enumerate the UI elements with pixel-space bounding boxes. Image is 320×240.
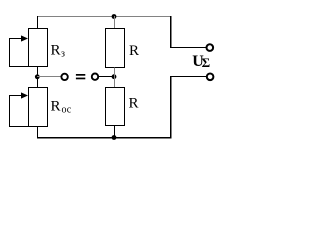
wiper arrow of Rос bbox=[10, 92, 28, 98]
junction node A (Rз / Rос / left supply terminal) bbox=[35, 74, 40, 79]
junction node: bottom bus at R bottom lead bbox=[112, 135, 117, 140]
wire: Rз wiper return (bottom horizontal to Rз bottom) bbox=[9, 66, 29, 68]
wire: node A to left supply terminal (gray) bbox=[37, 76, 62, 78]
terminal circle: output U+ bbox=[207, 44, 214, 51]
wire: right vertical from top bus down to U+ terminal bbox=[170, 16, 172, 48]
terminal circle: output U- bbox=[207, 74, 214, 81]
resistor Rз (adjustable, rectangle body) bbox=[29, 29, 48, 67]
svg-text:R: R bbox=[129, 43, 139, 59]
wire: Rз bottom lead down to node A bbox=[37, 67, 39, 88]
junction node: top bus at R top lead bbox=[112, 14, 117, 19]
wire: Rз top lead bbox=[37, 16, 39, 29]
wire: Rз wiper return (left bracket vertical) bbox=[9, 38, 11, 67]
label R (bottom) bbox=[129, 96, 139, 112]
supply symbol = (DC source marking) bbox=[76, 74, 85, 79]
svg-text:з: з bbox=[61, 49, 65, 60]
svg-text:R: R bbox=[129, 96, 139, 112]
wire: right vertical from bottom bus up to U- terminal bbox=[170, 77, 172, 139]
wire: R(bottom) bottom lead bbox=[114, 126, 116, 138]
label Rз bbox=[51, 43, 66, 60]
terminal circle: supply right bbox=[92, 74, 98, 80]
wire: supply right terminal to node B bbox=[98, 76, 114, 78]
label UΣ (output voltage) bbox=[192, 53, 210, 70]
svg-text:ос: ос bbox=[62, 105, 72, 116]
wire: to output terminal U- bbox=[170, 76, 207, 78]
svg-text:Σ: Σ bbox=[202, 55, 211, 70]
label Rос bbox=[51, 99, 72, 116]
wire: Rос bottom lead down to bottom bus bbox=[37, 127, 39, 138]
wire: R(top) top lead (gray) bbox=[114, 16, 116, 29]
terminal circle: supply left bbox=[61, 74, 67, 80]
wiper arrow of Rз bbox=[10, 35, 28, 41]
wire: Rос wiper return (left bracket vertical) bbox=[9, 95, 11, 127]
svg-text:R: R bbox=[51, 43, 61, 59]
wire: to output terminal U+ bbox=[170, 47, 207, 49]
svg-text:R: R bbox=[51, 99, 61, 115]
wire: between R(top) and R(bottom) through node B (gray) bbox=[114, 68, 116, 88]
label R (top) bbox=[129, 43, 139, 59]
junction node B (between the two R resistors) bbox=[112, 74, 117, 79]
wire: Rос wiper return (bottom horizontal to Rос bottom) bbox=[9, 126, 29, 128]
wire: top bus (gray) from node above Rз to right corner bbox=[37, 16, 170, 18]
resistor R (bottom right) bbox=[106, 88, 125, 126]
resistor Rос (adjustable, rectangle body) bbox=[29, 88, 48, 127]
resistor R (top right) bbox=[106, 29, 125, 68]
wire: bottom bus bbox=[37, 137, 171, 139]
